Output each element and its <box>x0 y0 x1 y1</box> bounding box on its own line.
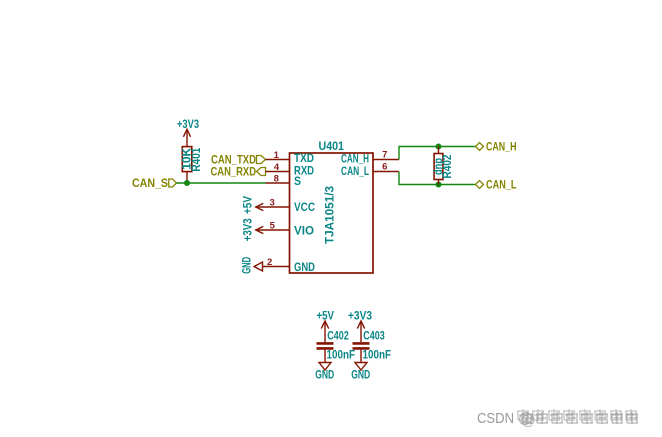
svg-text:GND: GND <box>351 369 370 381</box>
hier label CAN_TXD <box>211 154 266 166</box>
junction (CAN_S / R401) <box>184 180 190 186</box>
svg-text:8: 8 <box>274 174 279 185</box>
svg-text:TJA1051/3: TJA1051/3 <box>325 186 337 244</box>
wire CAN_S to pin 8 <box>177 182 266 184</box>
svg-text:CAN_H: CAN_H <box>486 142 517 154</box>
junction (CAN_H / R402) <box>436 144 442 150</box>
svg-text:GND: GND <box>315 369 334 381</box>
svg-text:2: 2 <box>267 257 272 268</box>
capacitor C403 <box>353 343 370 362</box>
pin 7 CAN_H <box>373 149 399 160</box>
svg-text:VIO: VIO <box>294 225 314 237</box>
power +3V3 (above R401) <box>177 119 199 146</box>
power +5V (C402) <box>317 311 335 343</box>
svg-text:CAN_TXD: CAN_TXD <box>211 154 256 166</box>
svg-text:7: 7 <box>382 149 387 160</box>
svg-text:CAN_H: CAN_H <box>341 154 369 166</box>
pin 4 RXD <box>266 162 290 173</box>
power +3V3 (C403) <box>348 311 372 343</box>
pin 6 CAN_L <box>373 161 399 172</box>
wire CAN_H net <box>399 147 476 160</box>
svg-text:100nF: 100nF <box>363 349 392 361</box>
pin 8 <box>266 174 290 185</box>
svg-text:GND: GND <box>242 257 254 274</box>
svg-text:+3V3: +3V3 <box>243 218 255 241</box>
watermark CSDN <box>477 409 638 429</box>
svg-text:4: 4 <box>274 162 280 173</box>
svg-text:R401: R401 <box>191 147 203 172</box>
junction (CAN_L / R402) <box>436 182 442 188</box>
svg-text:+5V: +5V <box>243 196 255 214</box>
pin 2 GND <box>263 257 290 268</box>
pin 5 VIO <box>256 221 290 232</box>
svg-text:6: 6 <box>382 161 387 172</box>
ground GND (C402) <box>315 363 334 382</box>
svg-text:GND: GND <box>294 262 315 274</box>
resistor R402 <box>434 147 443 185</box>
capacitor C402 <box>317 343 334 362</box>
svg-text:1: 1 <box>274 150 280 161</box>
svg-text:CAN_RXD: CAN_RXD <box>211 166 257 178</box>
svg-text:TXD: TXD <box>294 153 314 165</box>
hier label CAN_H <box>476 142 517 154</box>
svg-text:S: S <box>294 176 301 188</box>
ground GND (C403) <box>351 363 370 382</box>
svg-text:+3V3: +3V3 <box>348 311 372 323</box>
svg-text:C402: C402 <box>327 331 349 343</box>
power +3V3 (pin 5) <box>243 218 264 241</box>
svg-text:CAN_L: CAN_L <box>486 180 517 192</box>
op-amp U401 body (CAN transceiver) <box>290 153 374 273</box>
hier label CAN_L <box>476 180 517 192</box>
svg-text:U401: U401 <box>319 141 345 153</box>
pin 3 VCC <box>256 198 290 209</box>
svg-text:CAN_S: CAN_S <box>132 178 168 190</box>
svg-text:CSDN: CSDN <box>477 411 514 427</box>
svg-text:3: 3 <box>270 198 275 209</box>
wire CAN_L net <box>399 172 476 185</box>
svg-text:R402: R402 <box>442 155 454 179</box>
svg-text:CAN_L: CAN_L <box>341 166 369 178</box>
power +5V (pin 3) <box>243 196 264 214</box>
svg-text:VCC: VCC <box>294 202 315 214</box>
hier label CAN_RXD <box>211 166 266 178</box>
svg-text:+3V3: +3V3 <box>177 119 199 131</box>
svg-text:C403: C403 <box>363 331 385 343</box>
pin 1 TXD <box>266 150 290 161</box>
svg-text:5: 5 <box>270 221 276 232</box>
resistor R401 <box>182 147 192 183</box>
power GND (pin 2) <box>242 257 263 274</box>
hier label CAN_S <box>132 178 177 190</box>
svg-text:100nF: 100nF <box>327 349 356 361</box>
